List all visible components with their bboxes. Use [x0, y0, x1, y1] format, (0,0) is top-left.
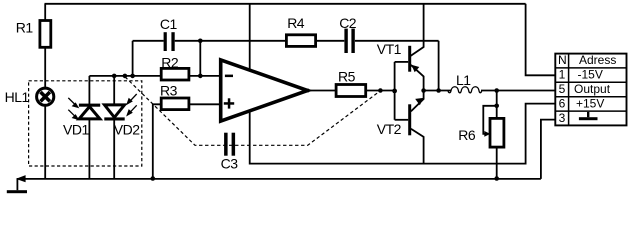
wire top rail (-15V)	[45, 3, 526, 5]
wire C2 to feedback corner	[355, 40, 439, 42]
svg-text:R3: R3	[160, 83, 178, 99]
wire R6 top lead	[496, 91, 498, 119]
svg-text:VT1: VT1	[377, 41, 402, 57]
svg-text:N: N	[558, 53, 567, 67]
capacitor C2	[344, 29, 354, 53]
svg-text:5: 5	[559, 82, 566, 96]
junction R6 on ground rail	[494, 176, 499, 181]
wire R4 to C2	[316, 40, 345, 42]
wire C1 left lead	[133, 40, 164, 42]
svg-text:C1: C1	[160, 16, 178, 32]
junction C1 branch on node A	[130, 74, 135, 79]
ground rail end arrow	[16, 175, 26, 182]
dashed coupling path	[125, 77, 380, 146]
wire op-amp output to R5	[308, 90, 337, 92]
svg-text:+15V: +15V	[576, 96, 604, 110]
resistor R5	[336, 85, 366, 97]
wire R1 bottom lead to lamp	[44, 47, 46, 88]
wire node A horizontal	[89, 75, 161, 77]
junction coupling line on node A	[123, 74, 128, 79]
wire R6 wiper branch	[483, 106, 496, 134]
wire VT2 emitter to output node	[411, 91, 424, 112]
transistor VT2	[408, 98, 423, 135]
lamp HL1	[37, 88, 54, 105]
junction emitters output node	[421, 88, 426, 93]
svg-text:-15V: -15V	[578, 68, 603, 82]
wire R6 bottom lead to rail	[496, 147, 498, 179]
svg-text:R2: R2	[161, 54, 179, 70]
wire VT2 base	[395, 119, 409, 121]
wire lamp to ground rail	[44, 106, 46, 179]
wire R3 left lead down to rail	[153, 104, 161, 179]
svg-text:VT2: VT2	[377, 121, 402, 137]
svg-text:3: 3	[559, 111, 566, 125]
junction feedback output node	[436, 88, 441, 93]
wire VT1 base	[395, 61, 409, 63]
junction VD2 on node A	[112, 74, 117, 79]
svg-text:R4: R4	[287, 15, 305, 31]
wire R2 to op-amp minus input	[189, 75, 219, 77]
wire node B vertical	[199, 41, 201, 76]
wire op-amp V- supply top	[249, 4, 251, 71]
wire VD2 vertical	[113, 76, 115, 179]
svg-text:R6: R6	[458, 127, 476, 143]
svg-text:Output: Output	[574, 82, 611, 96]
svg-text:1: 1	[559, 68, 566, 82]
svg-text:R5: R5	[338, 69, 356, 85]
junction node B at minus input	[198, 74, 203, 79]
op-amp minus sign	[225, 75, 233, 78]
junction op-amp output	[306, 89, 310, 93]
wire L1 to connector pin 5	[481, 90, 555, 92]
junction R3 on ground rail	[151, 176, 156, 181]
wire feedback row to R4	[200, 40, 286, 42]
wire op-amp V+ supply bottom and +15V line	[250, 104, 556, 164]
svg-text:R1: R1	[16, 20, 34, 36]
wire C1 branch vertical	[132, 41, 134, 76]
dashed box (optical assembly)	[29, 81, 142, 166]
svg-text:VD2: VD2	[114, 122, 140, 138]
junction R6 top output node	[494, 88, 499, 93]
junction node B top	[198, 39, 203, 44]
svg-text:HL1: HL1	[5, 89, 30, 105]
ground symbol stem	[16, 179, 18, 190]
photodiode VD2	[104, 105, 124, 121]
wire -15V vertical to pin 1	[526, 4, 556, 76]
junction base node	[392, 89, 397, 94]
VD2 light arrows	[127, 94, 136, 115]
op-amp plus sign	[224, 98, 234, 108]
transistor VT1	[408, 46, 419, 72]
capacitor C1	[164, 32, 175, 51]
junction coupling line at R5 output	[378, 88, 383, 93]
resistor R4	[286, 35, 315, 47]
VD1 light arrows	[68, 98, 78, 119]
wire VT1 emitter to output node	[411, 65, 424, 91]
svg-text:Adress: Adress	[579, 53, 616, 67]
wire R5 to bases node	[366, 90, 395, 92]
wire ground rail	[17, 178, 541, 180]
table ground glyph	[579, 117, 598, 120]
wire R1 top lead	[44, 4, 46, 21]
connector table X1	[555, 54, 626, 126]
svg-text:VD1: VD1	[63, 122, 89, 138]
resistor R2	[161, 68, 189, 80]
R6 wiper arrow	[484, 131, 490, 137]
wire VT1 collector to top rail	[411, 4, 424, 56]
svg-text:L1: L1	[456, 72, 471, 88]
junction R6 wiper branch	[494, 104, 499, 109]
resistor R6 (trimmer)	[490, 118, 504, 147]
svg-text:6: 6	[559, 96, 566, 110]
svg-text:C3: C3	[221, 156, 239, 172]
op-amp U1 triangle	[221, 60, 308, 121]
wire pin 3 ground stub	[541, 120, 555, 179]
photodiode VD1	[79, 104, 100, 119]
capacitor C3	[224, 133, 235, 156]
ground symbol bar	[7, 190, 27, 193]
wire R3 to op-amp plus input	[189, 103, 219, 105]
wire output row to L1	[424, 90, 452, 92]
wire VT2 collector to +15V line	[411, 129, 424, 164]
wire VD1 vertical	[88, 76, 90, 179]
wire feedback vertical to output node	[438, 41, 440, 91]
inductor L1	[448, 87, 482, 93]
svg-text:C2: C2	[339, 15, 357, 31]
wire C1 right lead	[175, 40, 201, 42]
wire base vertical	[394, 62, 396, 120]
resistor R3	[161, 98, 189, 110]
resistor R1	[40, 21, 51, 48]
